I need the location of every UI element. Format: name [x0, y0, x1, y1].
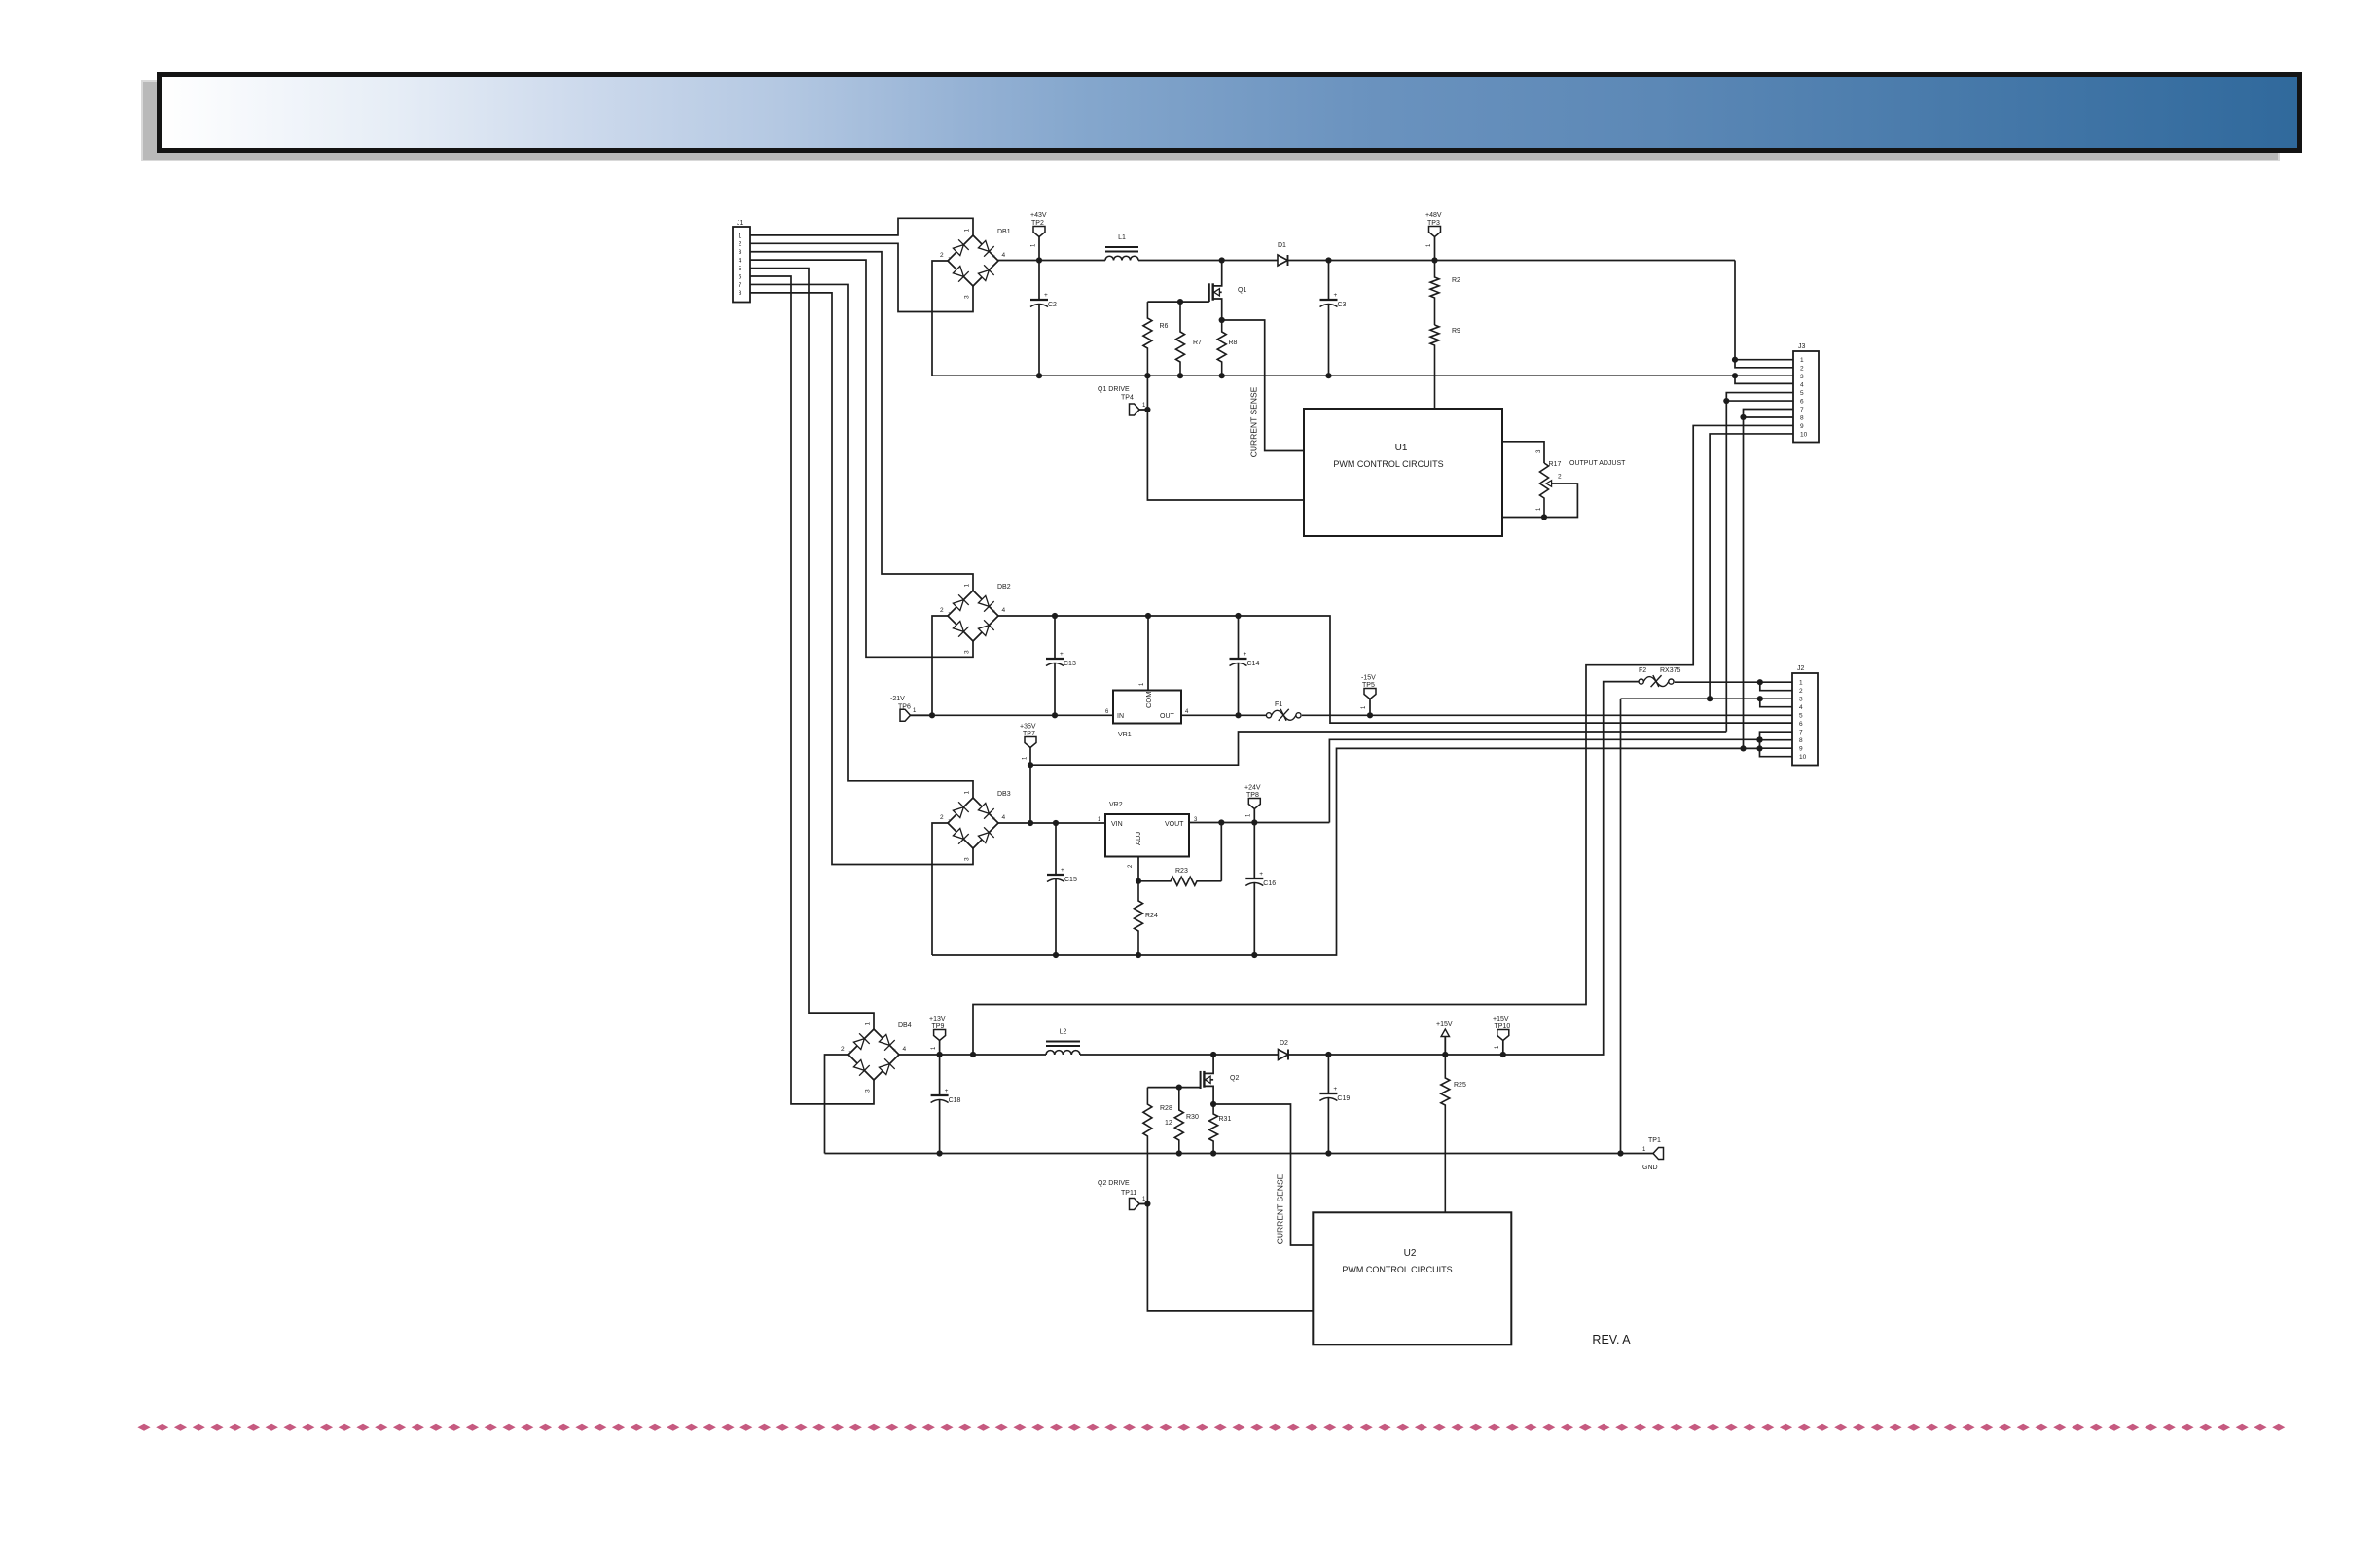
node J3 pin10 joins — [1707, 696, 1713, 701]
node TP9/C18 — [937, 1052, 943, 1057]
wire U1 to R17 bottom — [1502, 517, 1544, 519]
svg-text:VR1: VR1 — [1118, 732, 1132, 738]
svg-text:DB4: DB4 — [898, 1022, 912, 1029]
svg-text:1: 1 — [1023, 756, 1028, 760]
svg-text:R6: R6 — [1160, 323, 1169, 330]
svg-text:+13V: +13V — [929, 1016, 946, 1022]
connector J1 — [733, 227, 750, 303]
inductor L2 — [1046, 1041, 1080, 1043]
fuse F1 — [1266, 713, 1271, 718]
wire ground rail stage4 — [825, 1153, 1654, 1155]
wire VR1 OUT to F1 — [1181, 714, 1269, 716]
svg-text:2: 2 — [739, 241, 742, 248]
wire ground to J3 pins3-4 — [1735, 376, 1793, 383]
svg-text:3: 3 — [865, 1089, 872, 1093]
test point TP9 +13V — [934, 1030, 946, 1041]
svg-text:+15V: +15V — [1436, 1021, 1453, 1028]
node gate/R30 — [1176, 1085, 1182, 1091]
svg-text:4: 4 — [1799, 704, 1803, 711]
wire J2 pin8 stub — [1760, 739, 1793, 741]
node VR1 COM — [1145, 613, 1151, 619]
bridge rectifier DB3 — [948, 798, 998, 848]
wire current sense tap stage4 — [1213, 1104, 1313, 1245]
svg-text:1: 1 — [964, 791, 971, 795]
svg-text:PWM CONTROL CIRCUITS: PWM CONTROL CIRCUITS — [1333, 459, 1443, 469]
svg-text:R2: R2 — [1452, 277, 1460, 284]
svg-text:5: 5 — [1799, 713, 1803, 720]
svg-text:C2: C2 — [1048, 302, 1057, 308]
svg-text:1: 1 — [1361, 705, 1367, 709]
svg-text:C15: C15 — [1064, 877, 1077, 883]
node TP7 riser junction — [1028, 820, 1033, 826]
wire to J3 pin1 — [1735, 359, 1793, 361]
test point TP3 +48V — [1429, 227, 1441, 237]
svg-text:C18: C18 — [949, 1097, 961, 1104]
svg-text:R31: R31 — [1219, 1116, 1232, 1123]
svg-text:2: 2 — [940, 607, 944, 614]
svg-text:3: 3 — [1536, 449, 1542, 453]
node Q1 drain tap — [1219, 257, 1225, 263]
wire VR2 ADJ pin — [1137, 857, 1139, 881]
svg-text:+15V: +15V — [1493, 1016, 1509, 1022]
resistor R2 — [1430, 261, 1439, 326]
svg-text:3: 3 — [739, 249, 742, 256]
svg-text:PWM CONTROL CIRCUITS: PWM CONTROL CIRCUITS — [1342, 1265, 1452, 1274]
bridge rectifier DB1 — [948, 235, 998, 286]
wire VR1 COM pin — [1147, 616, 1149, 691]
node J2 pin3 — [1757, 696, 1763, 701]
inductor L1 — [1105, 246, 1138, 248]
wire J1-4 to DB2 pin3 — [750, 260, 973, 657]
transistor Q1 (MOSFET) — [1213, 261, 1222, 286]
svg-text:+43V: +43V — [1030, 212, 1047, 219]
capacitor C19 — [1327, 1055, 1329, 1093]
wire VR2 VOUT rail (+24V) — [1189, 822, 1329, 824]
voltage regulator VR2 — [1105, 814, 1189, 857]
svg-text:2: 2 — [1128, 864, 1134, 868]
wire J1-1 to DB1 pin1 — [750, 218, 973, 235]
capacitor C16 — [1253, 823, 1255, 879]
wire ground rail stage1 — [932, 375, 1735, 376]
svg-text:+: + — [1333, 1086, 1337, 1093]
node TP6 junction — [929, 712, 935, 718]
node ADJ/R23/R24 junction — [1136, 878, 1141, 884]
node Q1-drive junction on ground rail — [1144, 373, 1150, 378]
svg-text:R24: R24 — [1145, 913, 1158, 919]
wire DB3 pin2 to stage3 ground rail — [932, 823, 948, 955]
node J3 pin1 tap — [1732, 357, 1738, 363]
svg-text:ADJ: ADJ — [1134, 832, 1142, 845]
svg-text:3: 3 — [964, 650, 971, 654]
svg-text:+: + — [992, 253, 995, 260]
node gate/R7 — [1177, 299, 1183, 305]
svg-text:R23: R23 — [1175, 868, 1188, 875]
wire J2 pin9 stub — [1760, 747, 1793, 749]
node Q2 source junction — [1210, 1101, 1216, 1107]
svg-text:1: 1 — [1098, 817, 1101, 823]
svg-text:4: 4 — [1800, 382, 1804, 389]
wire current sense tap — [1222, 320, 1304, 451]
node TP5 — [1367, 712, 1373, 718]
capacitor C2 — [1038, 261, 1040, 301]
op-amp U2 control block — [1313, 1212, 1511, 1344]
svg-text:COM: COM — [1144, 692, 1153, 709]
node J3 pin7/8 joins — [1740, 745, 1746, 751]
node C16 bottom — [1251, 952, 1257, 958]
svg-text:7: 7 — [1799, 730, 1803, 736]
svg-text:TP1: TP1 — [1648, 1137, 1661, 1144]
svg-text:4: 4 — [1185, 709, 1189, 715]
node R24 bottom — [1136, 952, 1141, 958]
svg-text:1: 1 — [1031, 243, 1037, 247]
svg-text:D2: D2 — [1280, 1040, 1288, 1047]
node TP10 — [1500, 1052, 1506, 1057]
svg-text:10: 10 — [1799, 754, 1807, 761]
svg-text:L2: L2 — [1060, 1029, 1067, 1036]
svg-text:1: 1 — [1246, 813, 1252, 817]
svg-text:1: 1 — [1799, 680, 1803, 687]
svg-text:RX375: RX375 — [1660, 667, 1681, 674]
svg-text:+: + — [1060, 651, 1064, 658]
capacitor C14 — [1238, 616, 1240, 659]
node R17 bottom — [1541, 514, 1547, 520]
svg-text:R9: R9 — [1452, 328, 1460, 335]
node +24V at J2 bus — [1756, 736, 1762, 742]
svg-text:+48V: +48V — [1425, 212, 1442, 219]
wire J2 pins3/4 bus — [1621, 698, 1793, 699]
node Q2 drain tap — [1210, 1052, 1216, 1057]
svg-text:+: + — [992, 815, 995, 822]
wire TP7 riser to DB3 rail — [1029, 765, 1031, 823]
svg-text:6: 6 — [739, 273, 742, 280]
svg-text:+: + — [1244, 651, 1247, 658]
svg-text:R28: R28 — [1160, 1105, 1172, 1112]
svg-text:U2: U2 — [1404, 1248, 1417, 1259]
svg-text:TP6: TP6 — [898, 704, 911, 711]
svg-text:1: 1 — [1536, 507, 1542, 511]
svg-text:1: 1 — [1800, 357, 1804, 364]
svg-text:C14: C14 — [1247, 661, 1260, 667]
resistor R7 — [1176, 302, 1185, 376]
bridge rectifier DB4 — [848, 1029, 899, 1080]
node C13 bottom — [1052, 712, 1058, 718]
svg-text:GND: GND — [1642, 1165, 1658, 1171]
svg-text:2: 2 — [841, 1046, 845, 1053]
resistor R25 — [1441, 1055, 1450, 1212]
resistor R31 — [1209, 1104, 1218, 1154]
svg-text:3: 3 — [964, 857, 971, 861]
svg-text:CURRENT SENSE: CURRENT SENSE — [1249, 386, 1259, 457]
wire DB1 pin2 to ground rail — [932, 261, 948, 376]
svg-text:+35V: +35V — [1020, 724, 1036, 731]
node TP3 — [1431, 257, 1437, 263]
node J3 pin6 — [1723, 398, 1729, 404]
svg-text:TP11: TP11 — [1121, 1190, 1136, 1197]
node R25 — [1442, 1052, 1448, 1057]
test point TP1 GND — [1653, 1148, 1664, 1160]
svg-text:Q2 DRIVE: Q2 DRIVE — [1098, 1180, 1130, 1187]
node J2 pins3/4 ground junction — [1617, 1150, 1623, 1156]
node C16/TP8 — [1251, 819, 1257, 825]
fuse F2 — [1639, 679, 1643, 684]
svg-text:TP9: TP9 — [932, 1023, 945, 1030]
op-amp U1 control block — [1304, 409, 1502, 536]
test point TP2 — [1033, 227, 1045, 237]
svg-text:12: 12 — [1165, 1120, 1172, 1127]
wire J1-8 to DB3 pin3 — [750, 293, 973, 865]
capacitor C13 — [1054, 616, 1056, 659]
wire L2 to D2 — [1080, 1054, 1279, 1056]
svg-text:6: 6 — [1800, 398, 1804, 405]
R17 wiper — [1546, 481, 1552, 487]
svg-text:8: 8 — [1800, 414, 1804, 421]
svg-text:+: + — [892, 1047, 896, 1054]
svg-text:3: 3 — [1799, 697, 1803, 703]
resistor R24 — [1135, 881, 1143, 955]
svg-text:6: 6 — [1105, 709, 1109, 715]
resistor R23 — [1138, 877, 1221, 885]
wire +13V rail (DB4 pin4 to L2) — [899, 1054, 1046, 1056]
node C13 top — [1052, 613, 1058, 619]
svg-text:TP4: TP4 — [1121, 395, 1134, 402]
svg-text:9: 9 — [1799, 746, 1803, 753]
svg-text:+: + — [1334, 292, 1338, 299]
wire J1-6 to DB4 pin3 — [750, 276, 874, 1104]
resistor R8 — [1217, 320, 1226, 376]
svg-text:7: 7 — [739, 282, 742, 289]
svg-text:5: 5 — [1800, 390, 1804, 397]
wire DB3 pin4 to VR2 VIN — [998, 822, 1105, 824]
svg-text:9: 9 — [1800, 423, 1804, 430]
wire J3 pin6 stub — [1726, 400, 1793, 402]
wire J3 pin9 to +13V rail — [973, 425, 1793, 1055]
capacitor C18 — [939, 1055, 941, 1095]
node C14 bottom — [1235, 712, 1241, 718]
svg-text:TP5: TP5 — [1362, 682, 1375, 689]
svg-text:1: 1 — [739, 233, 742, 239]
svg-text:3: 3 — [964, 295, 971, 299]
svg-text:4: 4 — [1002, 252, 1006, 259]
wire +24V to J2 pins7-10 — [1329, 739, 1759, 822]
capacitor C3 — [1328, 261, 1330, 301]
svg-text:2: 2 — [1800, 366, 1804, 373]
node C14 top — [1235, 613, 1241, 619]
wire D2 to F2 riser (+15V rail) — [1288, 682, 1641, 1055]
separator dotted line — [137, 1424, 2285, 1431]
wire J1-3 to DB2 pin1 — [750, 252, 973, 591]
svg-text:4: 4 — [739, 258, 742, 265]
test point TP10 +15V — [1497, 1030, 1509, 1041]
wire R28 to TP11 and U2 (Q2 drive) — [1147, 1204, 1313, 1311]
svg-text:REV. A: REV. A — [1592, 1333, 1631, 1346]
connector J3 — [1793, 351, 1819, 443]
svg-text:1: 1 — [931, 1046, 937, 1050]
svg-text:CURRENT SENSE: CURRENT SENSE — [1276, 1173, 1285, 1244]
svg-text:8: 8 — [739, 290, 742, 297]
svg-text:-: - — [949, 818, 951, 824]
node Q1 source junction — [1219, 317, 1225, 323]
wire L1 to D1 — [1138, 260, 1278, 262]
svg-text:DB3: DB3 — [997, 791, 1011, 798]
wire F2 to J2 pins1/2 — [1675, 681, 1792, 683]
svg-text:4: 4 — [903, 1046, 907, 1053]
svg-text:TP10: TP10 — [1495, 1023, 1511, 1030]
node C15 top — [1053, 820, 1059, 826]
wire +35V to J3 pins5/6 — [1030, 732, 1726, 765]
svg-text:1: 1 — [964, 584, 971, 588]
svg-text:3: 3 — [1800, 374, 1804, 380]
potentiometer R17 — [1540, 463, 1549, 518]
resistor R28 — [1143, 1088, 1152, 1204]
svg-text:VOUT: VOUT — [1165, 821, 1184, 828]
svg-text:IN: IN — [1117, 713, 1124, 720]
svg-text:-: - — [949, 611, 951, 617]
svg-text:1: 1 — [1139, 682, 1145, 686]
svg-text:+: + — [1259, 871, 1263, 878]
svg-text:TP7: TP7 — [1023, 731, 1035, 737]
node ground to J3 pin3 — [1732, 373, 1738, 378]
node R23 riser — [1218, 819, 1224, 825]
svg-text:+: + — [1044, 292, 1048, 299]
wire J2 pins3/4 to ground — [1620, 699, 1622, 1153]
diode D2 — [1279, 1050, 1289, 1060]
wire J3 pin10 riser — [1710, 434, 1793, 699]
svg-text:-: - — [849, 1050, 851, 1056]
svg-text:1: 1 — [1142, 1197, 1146, 1202]
svg-text:2: 2 — [1799, 688, 1803, 695]
svg-text:6: 6 — [1799, 721, 1803, 728]
wire J1-2 to DB1 pin3 — [750, 243, 973, 311]
svg-text:C16: C16 — [1263, 880, 1276, 887]
diode D1 — [1278, 255, 1288, 266]
svg-text:DB1: DB1 — [997, 229, 1011, 235]
node +13V riser junction — [970, 1052, 976, 1057]
svg-text:R25: R25 — [1454, 1082, 1466, 1089]
svg-text:-15V: -15V — [1361, 675, 1376, 682]
svg-text:4: 4 — [1002, 607, 1006, 614]
svg-text:J2: J2 — [1797, 665, 1805, 672]
test point TP4 Q1 DRIVE — [1130, 404, 1140, 415]
wire J3 pin5/6 riser — [1726, 393, 1793, 732]
svg-text:D1: D1 — [1278, 242, 1286, 249]
header banner — [160, 75, 2300, 151]
svg-text:L1: L1 — [1118, 234, 1126, 241]
svg-text:2: 2 — [940, 814, 944, 821]
wire Q1 gate bus — [1147, 301, 1208, 303]
capacitor C15 — [1055, 823, 1057, 875]
svg-text:DB2: DB2 — [997, 584, 1011, 591]
svg-text:F2: F2 — [1639, 667, 1646, 674]
svg-text:1: 1 — [964, 229, 971, 233]
test point TP11 Q2 DRIVE — [1130, 1199, 1140, 1210]
node +35V junction — [1028, 762, 1033, 768]
test point TP7 +35V — [1025, 737, 1036, 748]
wire +21V rail (DB2 pin4) to J2 pin6 — [998, 616, 1793, 723]
svg-text:+: + — [992, 608, 995, 615]
svg-text:-21V: -21V — [890, 696, 905, 702]
svg-text:2: 2 — [1558, 474, 1562, 481]
svg-text:F1: F1 — [1275, 701, 1282, 708]
svg-text:1: 1 — [1642, 1147, 1646, 1153]
wire DB4 pin2 to ground rail — [825, 1055, 849, 1154]
svg-text:+: + — [1061, 867, 1064, 874]
svg-text:R30: R30 — [1186, 1114, 1199, 1121]
transistor Q2 (MOSFET) — [1204, 1055, 1213, 1073]
wire J2 pins7-10 common — [1760, 732, 1793, 757]
svg-text:2: 2 — [940, 252, 944, 259]
svg-text:OUTPUT ADJUST: OUTPUT ADJUST — [1569, 460, 1626, 467]
node C3 top — [1325, 257, 1331, 263]
svg-text:VR2: VR2 — [1109, 802, 1123, 808]
svg-text:R7: R7 — [1193, 340, 1202, 346]
svg-text:U1: U1 — [1395, 443, 1408, 453]
wire J3 pin8 stub — [1744, 416, 1794, 418]
node J3 pin8 — [1740, 414, 1746, 420]
resistor R6 — [1143, 302, 1152, 376]
header banner shadow — [142, 81, 2279, 161]
svg-text:TP3: TP3 — [1427, 220, 1440, 227]
svg-text:C3: C3 — [1338, 302, 1347, 308]
wire Q1 drive to U1 — [1147, 376, 1304, 500]
svg-text:1: 1 — [913, 708, 917, 714]
power flag +15V — [1441, 1029, 1449, 1037]
node TP11 tap — [1144, 1201, 1150, 1206]
svg-text:J1: J1 — [737, 220, 744, 227]
svg-text:J3: J3 — [1798, 343, 1806, 350]
node +43V junction TP2/C2 — [1036, 257, 1042, 263]
wire J1-5 to DB4 pin1 — [750, 269, 874, 1029]
wire +43V rail (DB1 pin4 to L1) — [998, 260, 1105, 262]
svg-text:+24V: +24V — [1244, 785, 1261, 792]
wire J3 pin7/8 riser — [1744, 410, 1794, 749]
wire -21V rail to VR1 IN — [932, 714, 1113, 716]
svg-text:OUT: OUT — [1160, 713, 1175, 720]
test point TP5 -15V — [1364, 689, 1376, 699]
wire DB2 pin2 to -21V rail — [932, 616, 948, 715]
wire J2 pin4 stub — [1760, 699, 1792, 707]
wire F1 to J2 pin5 (-15V) — [1302, 714, 1793, 716]
svg-text:TP8: TP8 — [1246, 792, 1259, 799]
wire U1 to R17 top — [1502, 442, 1544, 463]
wire D1 to +48V corner — [1288, 260, 1736, 262]
voltage regulator VR1 — [1113, 691, 1181, 724]
svg-text:+: + — [945, 1088, 949, 1094]
svg-text:5: 5 — [739, 266, 742, 272]
node C19 top — [1325, 1052, 1331, 1057]
test point TP8 +24V — [1248, 799, 1260, 809]
wire R23 riser to +24V rail — [1220, 823, 1222, 881]
svg-text:4: 4 — [1002, 814, 1006, 821]
node TP4 tap — [1144, 407, 1150, 412]
svg-text:Q1 DRIVE: Q1 DRIVE — [1098, 386, 1130, 393]
svg-text:1: 1 — [1495, 1045, 1500, 1049]
svg-text:7: 7 — [1800, 407, 1804, 413]
svg-text:C13: C13 — [1064, 661, 1076, 667]
test point TP6 -21V — [900, 709, 911, 721]
node J2 pins7-10 joins — [1756, 745, 1762, 751]
node C15 bottom — [1053, 952, 1059, 958]
wire +48V rail down to J3 — [1735, 261, 1793, 368]
resistor R30 — [1174, 1088, 1183, 1154]
svg-text:C19: C19 — [1337, 1095, 1350, 1102]
svg-text:1: 1 — [865, 1022, 872, 1026]
wire Q2 gate bus — [1147, 1087, 1200, 1089]
wire stage3 ground rail to J2 pins — [932, 748, 1760, 955]
svg-text:1: 1 — [1426, 243, 1432, 247]
svg-text:10: 10 — [1800, 431, 1808, 438]
svg-text:VIN: VIN — [1111, 821, 1123, 828]
svg-text:R8: R8 — [1229, 340, 1238, 346]
